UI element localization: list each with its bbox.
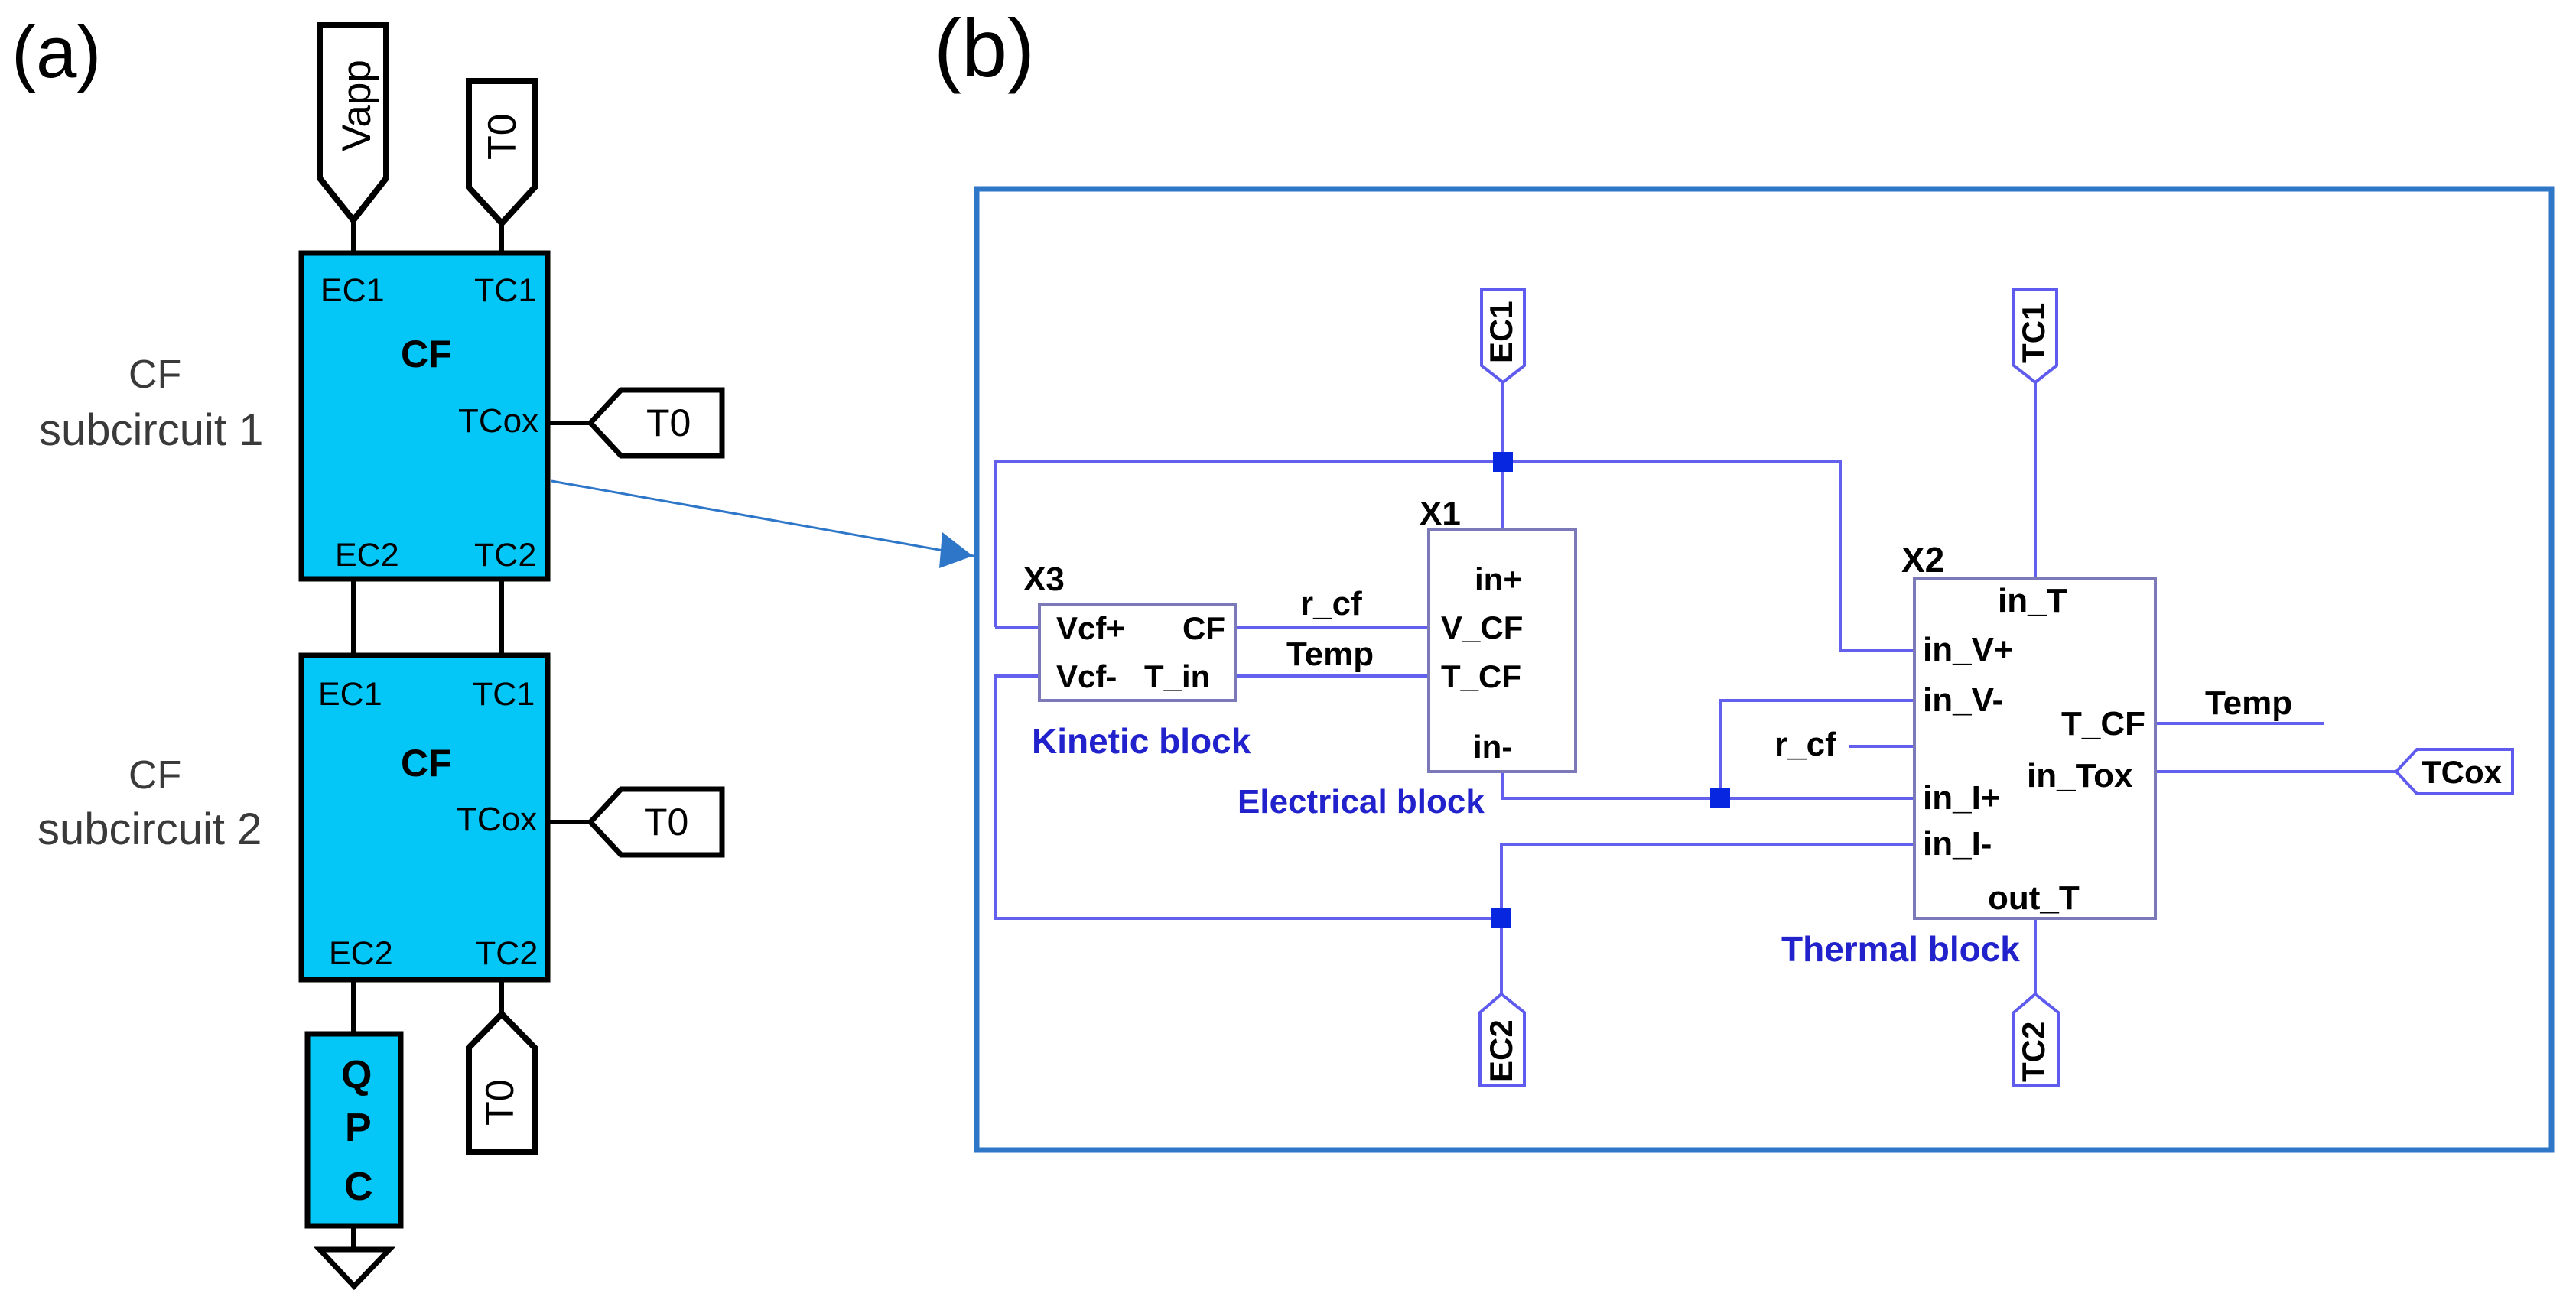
- svg-text:V_CF: V_CF: [1441, 609, 1523, 645]
- svg-text:Kinetic block: Kinetic block: [1032, 721, 1251, 761]
- svg-text:C: C: [344, 1165, 373, 1209]
- svg-text:CF: CF: [401, 742, 452, 785]
- svg-text:in_I-: in_I-: [1923, 825, 1992, 863]
- svg-text:T0: T0: [480, 113, 525, 160]
- svg-text:r_cf: r_cf: [1300, 585, 1362, 622]
- svg-text:CF: CF: [1182, 610, 1225, 646]
- svg-text:in+: in+: [1475, 561, 1522, 597]
- svg-text:Q: Q: [341, 1053, 372, 1097]
- svg-text:subcircuit 1: subcircuit 1: [39, 405, 263, 455]
- svg-text:EC1: EC1: [320, 272, 385, 309]
- svg-text:out_T: out_T: [1988, 879, 2080, 917]
- svg-text:Thermal block: Thermal block: [1781, 929, 2020, 969]
- svg-text:Vapp: Vapp: [334, 60, 379, 151]
- svg-text:T0: T0: [644, 801, 688, 843]
- svg-text:X2: X2: [1901, 540, 1944, 580]
- svg-text:in_V+: in_V+: [1923, 631, 2014, 668]
- svg-text:CF: CF: [401, 333, 452, 375]
- svg-text:r_cf: r_cf: [1774, 726, 1836, 763]
- svg-text:EC2: EC2: [329, 935, 393, 972]
- svg-text:in-: in-: [1473, 729, 1512, 765]
- svg-text:T_in: T_in: [1144, 658, 1210, 694]
- svg-text:TC1: TC1: [474, 272, 536, 309]
- svg-text:TCox: TCox: [457, 801, 537, 838]
- svg-text:T_CF: T_CF: [1441, 658, 1521, 694]
- svg-text:TCox: TCox: [2422, 754, 2503, 790]
- svg-text:CF: CF: [128, 753, 181, 798]
- svg-text:Temp: Temp: [2205, 684, 2292, 722]
- svg-text:subcircuit 2: subcircuit 2: [37, 804, 262, 854]
- svg-text:X1: X1: [1420, 495, 1461, 532]
- svg-text:in_T: in_T: [1998, 582, 2067, 619]
- svg-text:in_Tox: in_Tox: [2027, 757, 2133, 795]
- svg-text:EC1: EC1: [1483, 301, 1519, 363]
- svg-text:T_CF: T_CF: [2061, 705, 2145, 743]
- svg-text:EC1: EC1: [318, 676, 382, 713]
- svg-text:TCox: TCox: [458, 402, 538, 440]
- svg-text:EC2: EC2: [335, 537, 399, 574]
- svg-text:TC2: TC2: [2015, 1022, 2051, 1082]
- svg-text:TC1: TC1: [473, 676, 535, 713]
- svg-text:TC2: TC2: [476, 935, 538, 972]
- svg-text:Electrical block: Electrical block: [1238, 783, 1485, 821]
- svg-text:(b): (b): [934, 2, 1035, 94]
- svg-text:CF: CF: [128, 353, 181, 397]
- svg-text:Temp: Temp: [1286, 635, 1374, 673]
- svg-text:T0: T0: [478, 1079, 522, 1126]
- svg-text:TC1: TC1: [2015, 303, 2051, 363]
- svg-text:P: P: [345, 1106, 372, 1150]
- svg-text:X3: X3: [1023, 561, 1065, 598]
- svg-text:T0: T0: [646, 401, 691, 444]
- svg-text:in_I+: in_I+: [1923, 779, 2001, 817]
- svg-text:EC2: EC2: [1483, 1019, 1519, 1082]
- svg-text:Vcf+: Vcf+: [1056, 610, 1125, 646]
- svg-text:(a): (a): [11, 11, 101, 93]
- svg-text:Vcf-: Vcf-: [1056, 658, 1117, 694]
- svg-text:TC2: TC2: [474, 537, 536, 574]
- svg-text:in_V-: in_V-: [1923, 681, 2003, 719]
